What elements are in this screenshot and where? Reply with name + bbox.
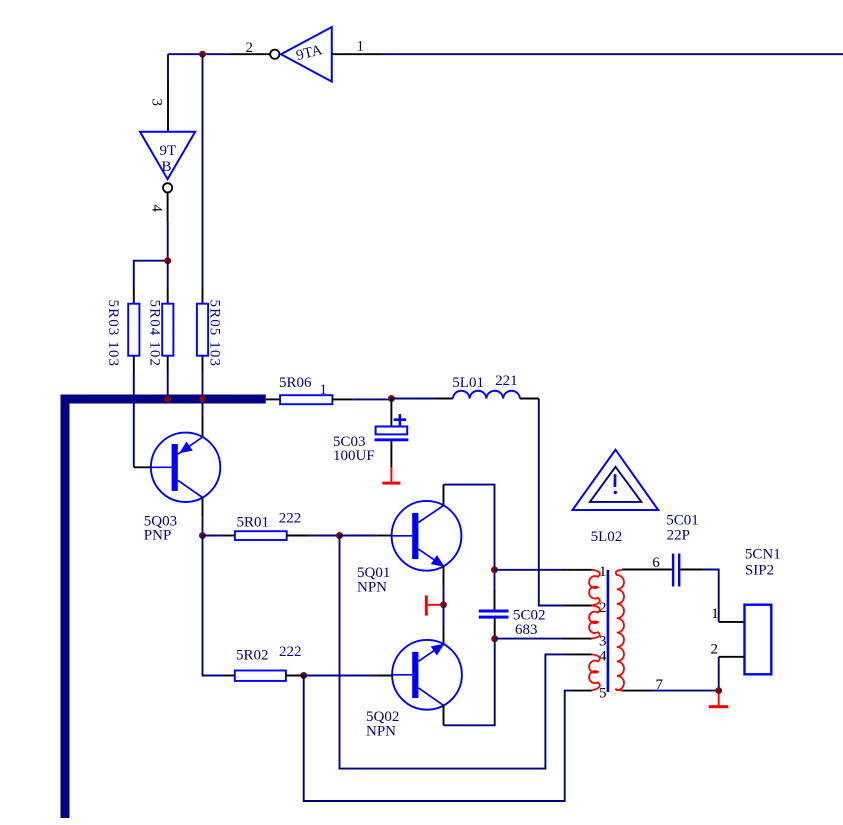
- svg-text:5L01: 5L01: [452, 375, 484, 391]
- node: junction at 9TA input: [199, 51, 206, 58]
- node: bus junction 5R05: [199, 396, 206, 403]
- node: junction 5R01 / 5Q01 base: [336, 532, 343, 539]
- node: emitter junction: [440, 601, 447, 608]
- wire: [203, 536, 223, 676]
- pin of 5Q03 (collector): [202, 498, 204, 518]
- svg-text:5: 5: [599, 685, 607, 701]
- wire: [167, 221, 169, 260]
- transistor 5Q03 PNP: [144, 433, 221, 544]
- wire: [304, 675, 377, 677]
- pin 2 of transformer 5L02: [565, 600, 607, 616]
- pin of 5R04: [167, 288, 169, 304]
- wire: [352, 398, 391, 400]
- pin 1 of 5CN1: [711, 606, 744, 622]
- svg-text:683: 683: [515, 622, 538, 638]
- resistor 5R01 222: [235, 511, 301, 540]
- wire: [167, 373, 169, 397]
- pin 7 of transformer 5L02: [622, 677, 664, 693]
- pin 1 of transformer 5L02: [563, 564, 607, 580]
- wire: [382, 53, 843, 55]
- pin of 5R05: [202, 356, 204, 373]
- pin of 5C03: [390, 399, 392, 427]
- pin of 5C03: [390, 441, 392, 467]
- wire: [391, 398, 435, 400]
- node: junction 5R06 / 5C03 / 5L01: [388, 395, 395, 402]
- pin 6 of transformer 5L02: [622, 555, 672, 571]
- resistor 5R02 222: [235, 644, 302, 681]
- pin of 5R03: [133, 288, 135, 304]
- pin 3 of 9TB: [149, 82, 168, 132]
- svg-text:3: 3: [149, 99, 165, 107]
- pin of 5R02: [286, 675, 304, 677]
- node: junction pin7 / 5CN1 pin2 / ground: [715, 687, 722, 694]
- capacitor 5C03 100UF (polarized): [333, 414, 408, 464]
- svg-text:22P: 22P: [667, 528, 690, 544]
- inductor 5L01 221: [452, 373, 520, 399]
- wire: [340, 535, 377, 537]
- svg-text:NPN: NPN: [357, 580, 387, 596]
- pin 2 of 9TA: [230, 40, 270, 56]
- inverter bubble of 9TB: [163, 183, 172, 192]
- wire: [443, 605, 445, 625]
- wire: [134, 261, 168, 288]
- transistor 5Q02 NPN: [366, 640, 462, 740]
- pin of 5Q02 (emitter): [443, 625, 445, 644]
- transformer 5L02 primary winding 2-3: [589, 606, 600, 639]
- wire: [539, 399, 565, 606]
- node: junction 5C02 top: [491, 566, 498, 573]
- wire: [495, 638, 563, 640]
- wire: [495, 569, 564, 571]
- transformer 5L02 secondary winding 6-7: [616, 570, 624, 691]
- connector 5CN1 SIP2: [745, 547, 781, 675]
- node: junction 5R02 / 5Q02 base: [300, 672, 307, 679]
- node: bus junction 5R04: [164, 396, 171, 403]
- wire: [443, 586, 445, 605]
- pin of 5Q03 (base): [134, 466, 151, 468]
- svg-text:4: 4: [149, 205, 165, 213]
- resistor 5R04 102: [147, 300, 174, 368]
- svg-text:2: 2: [711, 641, 719, 657]
- pin 1 of 9TA: [332, 39, 382, 55]
- pin of 5Q01 (emitter): [443, 566, 445, 586]
- svg-text:5Q01: 5Q01: [357, 565, 390, 581]
- pin 2 of 5CN1: [711, 641, 745, 657]
- svg-text:222: 222: [279, 644, 302, 660]
- wire: [202, 517, 204, 535]
- pin of 5L01: [520, 398, 539, 400]
- svg-text:B: B: [162, 159, 172, 175]
- capacitor 5C02 683: [479, 590, 546, 639]
- wire: [202, 373, 204, 397]
- wire: [202, 54, 204, 287]
- wire: [494, 570, 496, 590]
- wire: [444, 639, 495, 726]
- svg-text:5R05 103: 5R05 103: [207, 300, 223, 368]
- wire: [203, 53, 230, 55]
- ground (power) below 5C03: [382, 468, 400, 485]
- ground (signal tick) at emitter junction: [425, 595, 440, 615]
- transformer 5L02 primary winding 1-2: [589, 570, 600, 606]
- pin of 5Q02 (collector): [443, 705, 445, 725]
- pin 4 of 9TB: [149, 192, 168, 221]
- svg-text:9T: 9T: [160, 143, 177, 159]
- pin 3 of transformer 5L02: [563, 634, 607, 650]
- wire: [203, 535, 223, 537]
- svg-text:5CN1: 5CN1: [745, 547, 781, 563]
- pin of 5R02: [223, 675, 235, 677]
- transistor 5Q01 NPN: [357, 501, 461, 596]
- svg-text:5R06: 5R06: [279, 375, 312, 391]
- resistor 5R05 103: [197, 300, 223, 368]
- inverter U 9TB: [140, 132, 195, 179]
- pin 5 of transformer 5L02: [572, 685, 607, 701]
- pin of 5Q01 (base): [376, 535, 391, 537]
- pin of 5Q01 (collector): [443, 485, 445, 506]
- svg-text:222: 222: [279, 511, 302, 527]
- wire: [202, 404, 204, 416]
- svg-text:5R01: 5R01: [237, 515, 270, 531]
- svg-text:SIP2: SIP2: [745, 563, 774, 579]
- pin of 5Q02 (base): [376, 675, 392, 677]
- pin of 5R05: [202, 288, 204, 304]
- pin of 5R01: [287, 535, 309, 537]
- svg-text:NPN: NPN: [366, 724, 396, 740]
- svg-text:2: 2: [246, 40, 254, 56]
- transformer 5L02 core: [607, 570, 610, 692]
- resistor 5R03 103: [105, 300, 139, 368]
- svg-text:1: 1: [711, 606, 719, 622]
- wire: [703, 570, 719, 622]
- svg-text:5R04 102: 5R04 102: [147, 300, 163, 368]
- wire: [718, 657, 720, 691]
- svg-text:5L02: 5L02: [591, 529, 623, 545]
- wire: [309, 535, 340, 537]
- svg-text:5R03 103: 5R03 103: [105, 300, 121, 368]
- wire: [133, 373, 135, 467]
- pin of 5Q03 (emitter): [202, 416, 204, 437]
- pin of 5C01: [680, 569, 702, 571]
- wire: [167, 54, 169, 82]
- pin of 5R06: [266, 398, 280, 400]
- svg-text:100UF: 100UF: [333, 448, 375, 464]
- svg-text:5R02: 5R02: [236, 648, 269, 664]
- wire: [340, 536, 566, 769]
- node: junction above resistors: [164, 257, 171, 264]
- svg-text:1: 1: [320, 382, 328, 398]
- transformer 5L02 winding 4-5: [589, 654, 600, 690]
- wire: [167, 261, 169, 288]
- ground (power) at 5CN1: [709, 694, 729, 708]
- pin 4 of transformer 5L02: [565, 649, 607, 665]
- svg-text:1: 1: [357, 39, 365, 55]
- node: junction 5C02 bottom: [491, 635, 498, 642]
- capacitor 5C01 22P: [666, 513, 699, 587]
- resistor 5R06 1: [279, 375, 332, 404]
- svg-text:PNP: PNP: [144, 528, 172, 544]
- pin of 5R04: [167, 356, 169, 373]
- wire: [304, 676, 572, 802]
- node: junction 5Q03 collector / 5R01: [199, 532, 206, 539]
- svg-text:221: 221: [495, 373, 517, 389]
- wire: [650, 690, 719, 692]
- svg-text:6: 6: [652, 555, 660, 571]
- pin of 5R06: [332, 398, 352, 400]
- inverter bubble of 9TA: [270, 50, 279, 59]
- warning triangle: [573, 450, 659, 510]
- wire: [444, 485, 495, 570]
- pin of 5R03: [133, 356, 135, 373]
- wire: [168, 53, 203, 55]
- pin of 5L01: [435, 398, 453, 400]
- bus wire (thick): [61, 395, 266, 819]
- svg-text:5C01: 5C01: [666, 513, 699, 529]
- pin of 5R01: [223, 535, 235, 537]
- inverter U 9TA: [281, 27, 332, 82]
